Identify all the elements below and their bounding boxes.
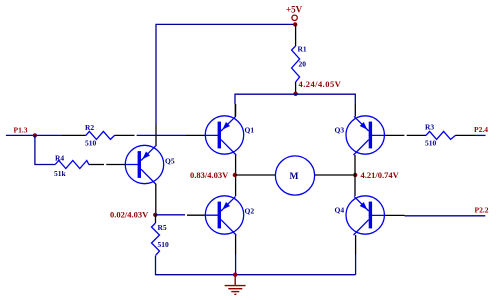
svg-text:R1: R1 [298,45,307,54]
resistor R2 [86,131,115,139]
svg-text:4.21/0.74V: 4.21/0.74V [361,170,400,180]
node ground junction [233,273,237,277]
wire Q2 base lead [187,214,206,216]
svg-text:Q2: Q2 [245,207,255,216]
svg-text:M: M [290,172,299,182]
wire Q1 base stub [186,134,206,136]
node motor right junction [353,173,357,177]
resistor R5 [152,223,160,256]
wire Q3 collector vertical [354,155,356,196]
node Q5 collector junction [153,213,157,217]
wire left column black segment [155,125,157,147]
wire Q1 emitter stub [234,104,236,117]
svg-text:Q5: Q5 [165,157,175,166]
wire P2.4 stub [475,134,486,136]
svg-text:Q1: Q1 [245,126,255,135]
wire to Q1 base blue [137,134,186,136]
wire R2 right lead to Q1 base [115,134,135,136]
wire P2.2 long wire [405,215,486,217]
wire P1.3 branch down [35,135,55,164]
svg-text:51k: 51k [54,169,67,178]
svg-text:P1.3: P1.3 [14,126,28,135]
svg-text:4.24/4.05V: 4.24/4.05V [299,79,342,89]
transistor Q3 [346,116,385,155]
svg-text:510: 510 [85,139,97,148]
wire motor left [235,174,276,176]
wire Q4 collector blue [355,255,357,275]
wire P1.3 input [6,134,35,136]
wire Q5 collector [155,184,157,215]
svg-text:R2: R2 [85,123,94,132]
wire Q3 base lead [385,134,404,136]
transistor Q4 [346,196,385,235]
svg-text:Q4: Q4 [335,206,345,215]
resistor R1 [292,46,300,82]
transistor Q5 [125,145,164,184]
wire R5 top lead [155,215,157,223]
wire R2 left lead [62,134,86,136]
wire Q4 collector black [355,235,357,255]
node R1 bottom junction [293,92,297,96]
resistor R4 [55,161,89,169]
wire Q2 collector blue [235,255,237,275]
wire R1 bottom lead [295,82,297,94]
motor M [275,156,314,195]
wire Q1 collector vertical [235,155,237,196]
node P1.3 junction [33,133,37,137]
node +5V junction [293,22,297,26]
svg-text:0.02/4.03V: 0.02/4.03V [110,210,149,220]
wire motor right [315,174,356,176]
resistor R3 [426,131,456,139]
svg-text:0.83/4.03V: 0.83/4.03V [190,170,229,180]
wire R3 right lead [456,134,476,136]
svg-text:+5V: +5V [286,5,303,15]
power +5V terminal circle [292,15,297,20]
wire top rail [156,24,295,124]
svg-text:20: 20 [299,60,307,69]
svg-text:Q3: Q3 [335,126,345,135]
svg-text:R4: R4 [55,154,64,163]
wire bridge top rail [235,94,355,104]
transistor Q2 [205,196,244,235]
wire P1.3 to R2 [35,134,62,136]
svg-text:P2.4: P2.4 [474,125,488,134]
wire Q4 base lead [385,214,405,216]
wire R4 right lead to Q5 base [89,164,104,166]
wire junction to Q2 base blue [155,214,185,216]
ground [225,275,246,295]
svg-text:P2.2: P2.2 [475,206,489,215]
svg-text:R3: R3 [425,123,434,132]
wire Q5 base stub [106,164,125,166]
wire Q3 emitter stub [354,104,356,117]
wire R3 left lead [407,134,426,136]
svg-text:510: 510 [158,240,170,249]
svg-text:R5: R5 [158,223,167,232]
node motor left junction [233,173,237,177]
transistor Q1 [205,116,244,155]
wire R1 top lead [295,24,297,46]
svg-text:510: 510 [425,139,437,148]
wire R5 bottom to ground rail [156,256,356,275]
wire Q2 collector black [235,235,237,255]
wire Q1 emitter vertical [235,104,237,117]
